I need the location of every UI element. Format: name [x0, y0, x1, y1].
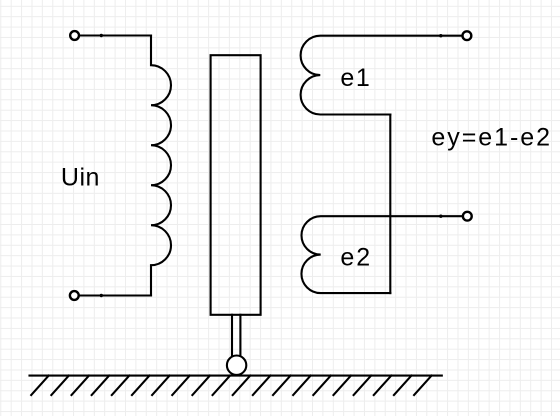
svg-text:e2: e2	[340, 244, 370, 272]
terminal circle middle-right	[463, 212, 472, 221]
secondary winding e2 with lead to terminal	[301, 216, 462, 293]
ground hatching	[31, 376, 431, 395]
wire bottom-left from primary coil to terminal	[79, 294, 151, 296]
svg-text:Uin: Uin	[61, 164, 100, 192]
waypoint dot on top-left wire	[100, 34, 103, 37]
wire top-left from terminal to primary coil	[80, 34, 152, 36]
secondary winding e1 with lead to terminal	[301, 36, 462, 115]
link wire between e1 and e2	[389, 115, 391, 294]
terminal circle top-right	[463, 31, 472, 40]
waypoint dot on bottom-left wire	[100, 294, 103, 297]
ground line	[30, 375, 442, 377]
stem below core	[232, 315, 240, 355]
primary winding L1 (Uin) with vertical leads	[151, 36, 171, 296]
terminal circle top-left	[70, 31, 79, 40]
svg-text:e1: e1	[340, 64, 369, 92]
waypoint dot on e2 wire	[439, 215, 442, 218]
core rectangle (movable armature)	[211, 55, 261, 315]
svg-text:ey=e1-e2: ey=e1-e2	[431, 124, 550, 152]
waypoint dot on e1 wire	[439, 34, 442, 37]
terminal circle bottom-left	[70, 291, 79, 300]
ball tip	[227, 356, 246, 375]
